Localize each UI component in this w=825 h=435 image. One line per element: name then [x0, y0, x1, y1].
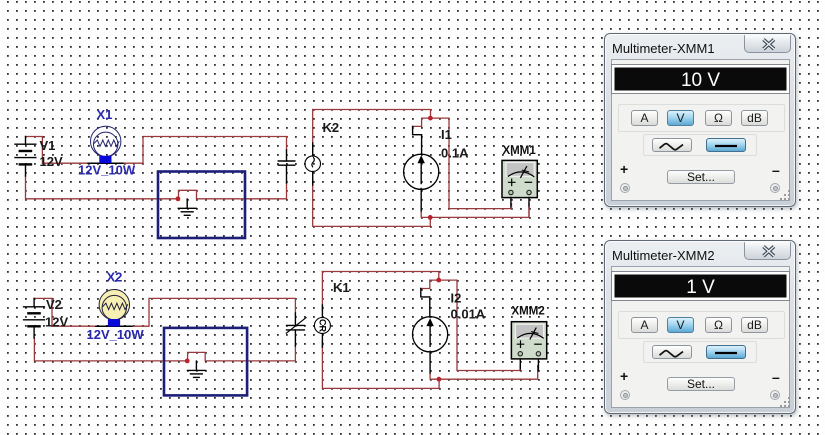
- svg-text:12V: 12V: [45, 315, 68, 330]
- svg-text:V1: V1: [40, 138, 56, 153]
- svg-text:K1: K1: [333, 280, 350, 295]
- svg-text:I2: I2: [451, 291, 462, 306]
- svg-text:K2: K2: [323, 120, 340, 135]
- svg-text:XMM1: XMM1: [503, 145, 537, 157]
- svg-text:V2: V2: [46, 297, 62, 312]
- svg-text:12V_10W: 12V_10W: [78, 163, 136, 178]
- svg-text:I1: I1: [441, 127, 452, 142]
- svg-text:XMM2: XMM2: [512, 306, 545, 318]
- svg-text:X1: X1: [97, 107, 113, 122]
- svg-text:12V: 12V: [40, 154, 63, 169]
- svg-text:CR: CR: [317, 319, 327, 332]
- svg-text:0.1A: 0.1A: [441, 146, 469, 161]
- svg-text:0.01A: 0.01A: [451, 307, 486, 322]
- svg-text:X2: X2: [107, 270, 123, 285]
- svg-text:12V_10W: 12V_10W: [87, 327, 145, 342]
